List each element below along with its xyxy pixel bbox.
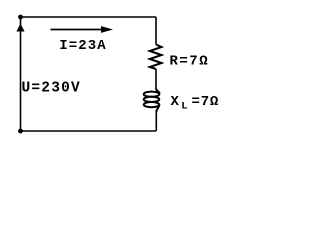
wire left (20, 17, 22, 131)
node bottom-left junction dot (18, 129, 23, 134)
svg-text:R=7Ω: R=7Ω (170, 54, 210, 70)
resistor R (150, 45, 162, 70)
inductor XL (coil of 3 loops) (144, 89, 160, 113)
wire right middle (155, 69, 157, 89)
wire right upper (155, 17, 157, 45)
svg-text:U=230V: U=230V (22, 80, 81, 96)
label XL=7Ω (171, 94, 220, 113)
node top-left junction dot (18, 15, 23, 20)
svg-text:X: X (171, 94, 180, 110)
wire right lower (155, 111, 157, 131)
current arrow I (51, 26, 114, 33)
svg-text:I=23A: I=23A (59, 38, 107, 54)
wire bottom (21, 130, 157, 132)
wire top (21, 16, 157, 18)
voltage arrow U (up arrowhead on left wire) (16, 24, 24, 32)
svg-text:=7Ω: =7Ω (192, 94, 220, 110)
svg-text:L: L (181, 101, 187, 113)
